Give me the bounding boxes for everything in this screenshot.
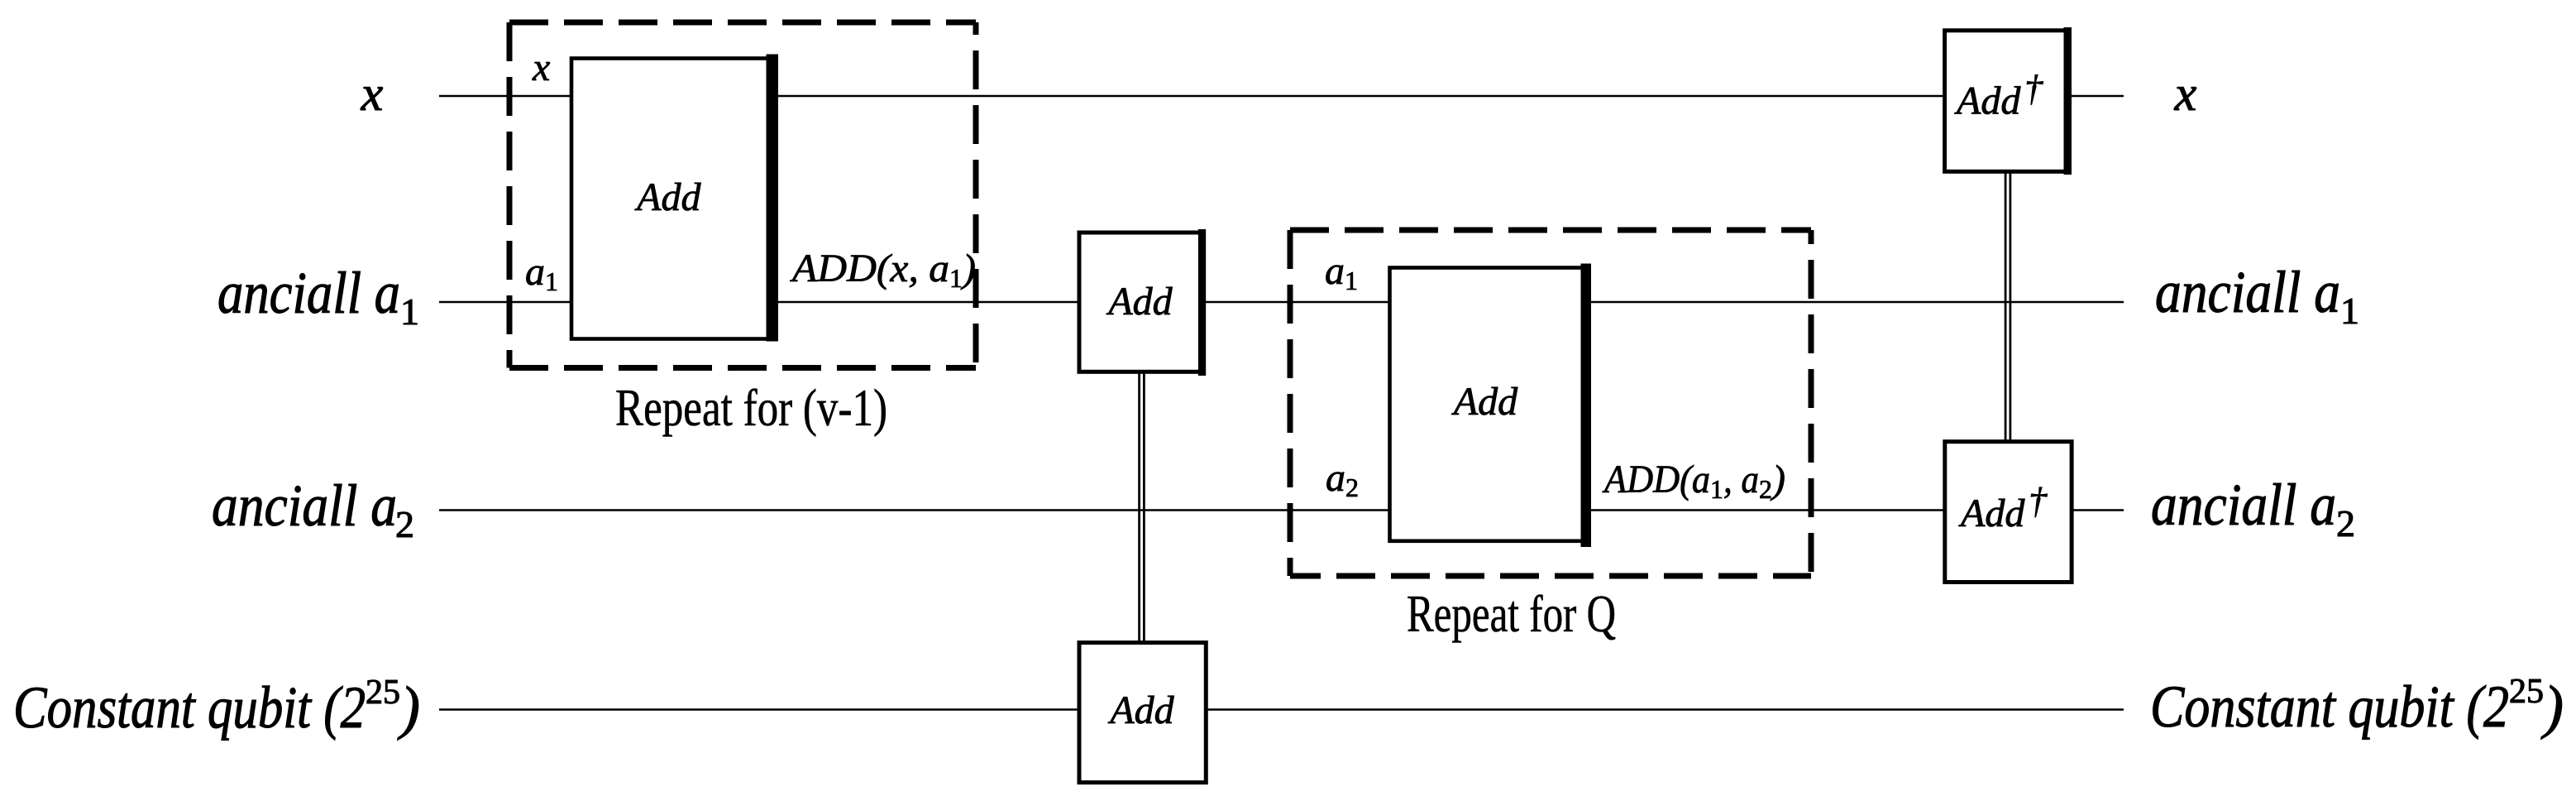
svg-text:ADD(a: ADD(a	[1602, 458, 1710, 501]
svg-text:a: a	[1326, 456, 1345, 500]
net label ADD(a1,a2) (output of U3)	[1602, 458, 1785, 504]
wire constant qubit	[439, 708, 2124, 711]
svg-text:2: 2	[395, 503, 414, 545]
gate Add U1 (big, in repeat box 1)	[571, 55, 778, 342]
svg-text:): )	[960, 247, 976, 290]
dashed repeat box 2: Repeat for Q	[1290, 230, 1811, 576]
svg-text:, a: , a	[1723, 458, 1759, 501]
svg-text:Add: Add	[1106, 280, 1173, 324]
svg-text:a: a	[525, 250, 545, 294]
pin label a1 (input of U3)	[1325, 249, 1358, 295]
wire anciall a2	[439, 509, 2124, 511]
gate Add U2 (small, on a1 wire)	[1079, 229, 1206, 376]
gate Add U4 (small, on constant wire)	[1079, 643, 1206, 783]
svg-text:Constant qubit (2: Constant qubit (2	[13, 674, 366, 741]
svg-text:anciall a: anciall a	[212, 472, 397, 539]
pin label a2 (input of U3)	[1326, 456, 1359, 502]
svg-text:x: x	[2174, 66, 2197, 121]
wire x	[439, 95, 2124, 98]
svg-text:Add: Add	[634, 175, 701, 219]
wire double classical link middle (Add a1 to Add const)	[1140, 372, 1145, 645]
svg-text:): )	[2540, 674, 2564, 740]
svg-text:1: 1	[545, 266, 558, 296]
svg-text:25: 25	[366, 674, 400, 712]
svg-text:anciall a: anciall a	[2155, 259, 2340, 325]
wire anciall a1	[439, 301, 2124, 304]
svg-text:2: 2	[1345, 472, 1359, 502]
svg-text:1: 1	[1345, 266, 1358, 295]
node label Constant qubit (2^25) (right)	[2150, 673, 2564, 740]
svg-text:): )	[397, 674, 420, 741]
svg-text:†: †	[2029, 481, 2048, 521]
pin label a1 (input of U1)	[525, 250, 558, 296]
svg-text:2: 2	[2336, 502, 2355, 544]
svg-text:25: 25	[2509, 673, 2544, 711]
gate Add-dagger U5 (on x wire, right)	[1945, 27, 2072, 175]
svg-text:1: 1	[400, 290, 419, 333]
svg-text:anciall a: anciall a	[2151, 472, 2336, 538]
svg-text:x: x	[532, 46, 550, 89]
svg-text:Repeat for Q: Repeat for Q	[1407, 584, 1616, 643]
svg-text:Add: Add	[1107, 688, 1174, 732]
svg-text:a: a	[1325, 249, 1345, 293]
svg-text:x: x	[361, 66, 384, 121]
node label anciall a2 (right)	[2151, 472, 2355, 544]
svg-text:Add: Add	[1958, 492, 2025, 535]
svg-text:1: 1	[2340, 290, 2359, 332]
gate Add U3 (big, in repeat box 2)	[1390, 264, 1592, 548]
svg-text:1: 1	[1710, 474, 1723, 504]
svg-text:Add: Add	[1954, 79, 2021, 123]
node label Constant qubit (2^25) (left)	[13, 674, 420, 741]
wire double classical link right (Add-dagger x to Add-dagger a2)	[2005, 171, 2010, 444]
svg-text:ADD(x, a: ADD(x, a	[790, 247, 949, 290]
svg-text:2: 2	[1759, 474, 1772, 504]
svg-text:Add: Add	[1451, 380, 1518, 424]
svg-text:): )	[1770, 458, 1785, 501]
svg-text:Repeat for (v-1): Repeat for (v-1)	[615, 378, 887, 437]
node label anciall a1 (right)	[2155, 259, 2359, 332]
svg-text:anciall a: anciall a	[217, 260, 400, 326]
node label anciall a2 (left)	[212, 472, 414, 545]
svg-text:†: †	[2024, 69, 2043, 109]
svg-text:1: 1	[949, 263, 963, 293]
node label anciall a1 (left)	[217, 260, 419, 333]
gate Add-dagger U6 (on a2 wire, right)	[1945, 442, 2072, 583]
dashed repeat box 1: Repeat for (v-1)	[509, 22, 976, 368]
net label ADD(x,a1) (output of U1)	[790, 247, 976, 293]
svg-text:Constant qubit (2: Constant qubit (2	[2150, 674, 2509, 740]
